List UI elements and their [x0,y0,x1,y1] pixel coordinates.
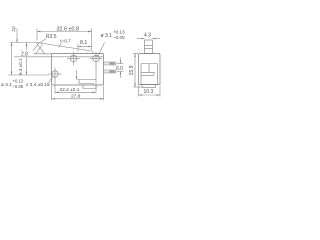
dimension 8.1 [78,44,92,52]
lever free position line [37,43,93,54]
svg-text:−0.05: −0.05 [113,35,125,40]
dimension 32.6 ±0.8 [37,29,92,51]
cover seam / OP extension line [14,56,103,58]
svg-text:32.6 ±0.8: 32.6 ±0.8 [57,27,79,33]
lever bent tip marks (free + pressed positions) [33,42,45,54]
svg-text:x 3.4 ±0.15: x 3.4 ±0.15 [26,82,50,88]
dimension 6.0 (terminal spacing) [117,58,124,79]
svg-text:ø 3.1: ø 3.1 [101,33,113,39]
svg-text:8.1: 8.1 [80,40,87,46]
svg-text:6.0: 6.0 [116,66,123,72]
mounting hole H1 (lower left) [49,68,62,81]
svg-text:6.3 ±0.1: 6.3 ±0.1 [18,58,23,75]
svg-text:27.8: 27.8 [71,94,81,100]
terminal T1 [104,62,117,65]
side view: bottom terminal tab [142,85,156,88]
side view: inner step [141,64,158,85]
side view: lever end [145,40,153,54]
dimension 15.9 (height, rotated) [133,54,142,88]
svg-text:+0.13: +0.13 [113,29,125,34]
left long dimension line x=11.5 [11,43,13,76]
hole H1 centre extension line [8,74,49,76]
svg-text:+0.13: +0.13 [13,79,24,84]
dimension 27.8 [52,86,104,100]
svg-text:FP: FP [12,26,17,32]
svg-text:15.9: 15.9 [129,65,135,75]
dimension 2.8 [26,43,28,76]
svg-text:2.8: 2.8 [21,52,28,58]
svg-text:ø 3.1: ø 3.1 [1,82,12,88]
slot / bottom terminal recess in body [77,80,96,89]
svg-text:22.2 ±0.1: 22.2 ±0.1 [60,87,80,93]
side view: dimension 4.3 [137,38,160,40]
switch body outline (front view) [52,54,104,86]
side view: body [139,54,161,85]
dimension 22.2 ±0.1 [55,64,96,93]
mounting hole H3 (top right) [90,52,103,65]
svg-text:−0.05: −0.05 [13,84,24,89]
svg-text:R3.5: R3.5 [46,34,57,40]
left dim line (x=17, down arrow to lever line) [16,29,18,43]
lever tip extension line [10,42,37,44]
svg-text:10.3: 10.3 [144,89,154,95]
terminal T2 [104,70,117,73]
svg-text:4.3: 4.3 [144,33,151,39]
svg-text:t=0.7: t=0.7 [60,38,71,43]
hole H2 (top center) [67,52,80,65]
lever pressed position line (left of body) [34,53,52,55]
leader arrow to slot [76,70,78,80]
dimension 10.3 [139,86,161,97]
